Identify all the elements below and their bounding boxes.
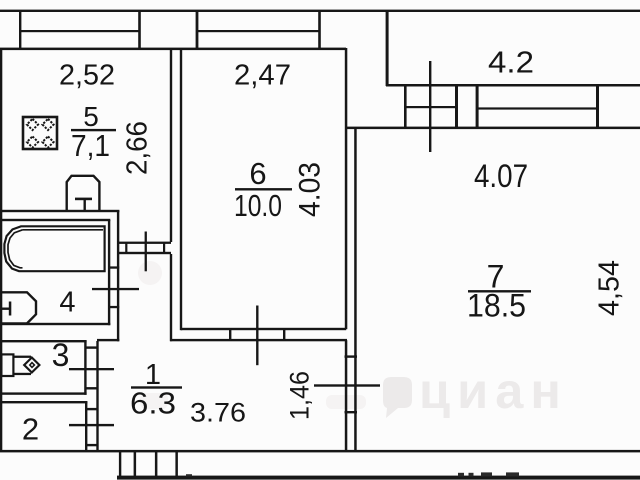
svg-text:2,47: 2,47 [234, 60, 291, 92]
svg-text:4.07: 4.07 [474, 158, 528, 194]
svg-text:1,46: 1,46 [285, 371, 315, 420]
svg-text:18.5: 18.5 [467, 288, 526, 324]
svg-text:7,1: 7,1 [71, 128, 110, 163]
svg-text:10.0: 10.0 [234, 188, 282, 223]
svg-text:2: 2 [22, 412, 39, 447]
svg-text:6.3: 6.3 [130, 386, 176, 421]
svg-text:4.03: 4.03 [294, 162, 327, 217]
svg-text:2,66: 2,66 [122, 121, 154, 175]
svg-text:циан: циан [419, 363, 568, 419]
svg-text:4,54: 4,54 [594, 260, 626, 316]
svg-text:4.2: 4.2 [488, 45, 534, 80]
svg-text:3: 3 [52, 337, 70, 373]
svg-text:6: 6 [249, 156, 266, 191]
svg-text:3.76: 3.76 [190, 398, 246, 428]
svg-text:2,52: 2,52 [59, 60, 115, 92]
svg-text:4: 4 [59, 287, 75, 319]
